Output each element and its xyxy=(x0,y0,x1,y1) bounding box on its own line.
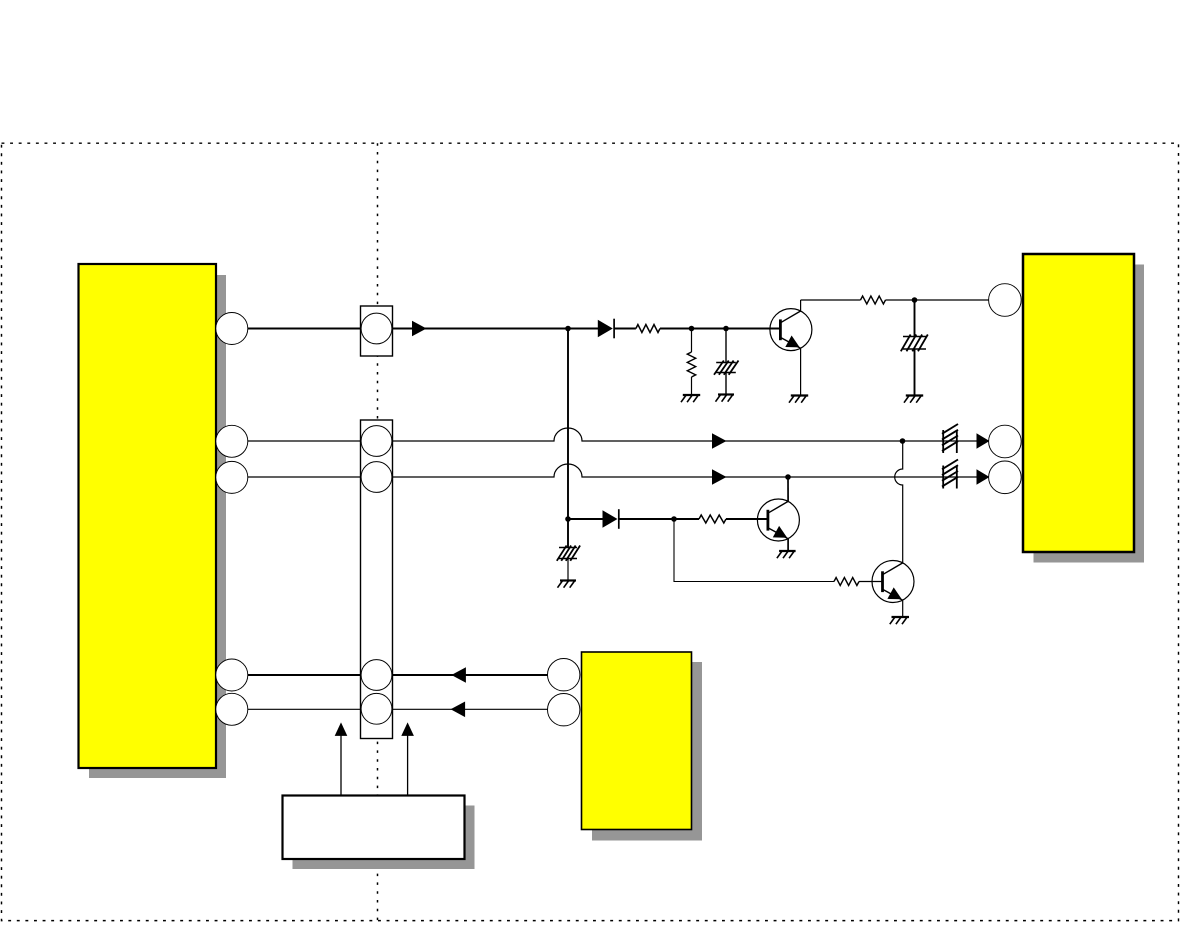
wire: N6 down to capacitor C3 xyxy=(914,300,916,337)
wire: Q1 collector up xyxy=(800,300,802,312)
wire: Q2 emitter down xyxy=(787,539,789,551)
wire W3: left pin to middle block pin xyxy=(232,674,564,676)
wire: Q3 emitter down xyxy=(902,600,904,617)
CN2 circle 4 xyxy=(361,693,392,724)
up arrow line (right) from bottom box xyxy=(407,736,409,796)
ferrite bead FB1 on W1 xyxy=(942,430,944,453)
node N6 junction dot xyxy=(912,297,918,303)
connector box CN2 (tall) xyxy=(361,420,393,739)
left yellow IC block xyxy=(79,264,217,768)
left block shadow xyxy=(89,275,226,778)
ground under C3 xyxy=(906,394,923,396)
capacitor C2 (hatched) xyxy=(559,547,577,549)
ground under Q2 emitter xyxy=(779,550,796,552)
right block pin 2 xyxy=(989,425,1022,458)
diode D2 xyxy=(603,510,618,528)
connector box CN1 (top) xyxy=(361,306,393,356)
left block pin 3 xyxy=(216,461,248,493)
bottom white box shadow xyxy=(293,806,475,870)
wire: N4 down to capacitor C2 xyxy=(567,519,569,548)
node N4 junction dot xyxy=(565,516,571,522)
node N7 junction dot on W1 xyxy=(900,438,906,444)
ground under C1 xyxy=(718,393,734,395)
left block pin 4 xyxy=(216,659,248,691)
wire: N5 down and right to resistor R5 xyxy=(674,519,834,582)
resistor R1 xyxy=(636,325,660,333)
transistor Q2 xyxy=(757,499,799,541)
up arrow line (left) from bottom box xyxy=(340,736,342,796)
wire: D2 to node N5 xyxy=(619,518,699,520)
wire: node N1 to diode D1 xyxy=(568,328,598,330)
up arrowhead (right) xyxy=(401,722,414,736)
ground under C2 xyxy=(560,579,576,581)
middle block pin 2 xyxy=(548,694,580,726)
right yellow IC block xyxy=(1023,254,1134,552)
ground under R4 xyxy=(683,394,700,396)
middle block pin 1 xyxy=(548,659,580,691)
wire: Q2 collector up to N8 xyxy=(787,477,789,501)
CN2 circle 2 xyxy=(361,462,392,493)
CN2 circle 1 xyxy=(361,426,392,457)
arrow on wire W1 xyxy=(712,433,727,449)
node N3 junction dot xyxy=(723,326,729,332)
CN2 circle 3 xyxy=(361,660,392,691)
center dividing dotted line xyxy=(377,143,379,920)
diode D1 xyxy=(598,320,613,338)
wire: C3 to ground xyxy=(914,349,916,396)
wire: N3 down to capacitor C1 xyxy=(725,329,727,363)
right block shadow xyxy=(1034,265,1145,563)
ground under Q3 emitter xyxy=(892,616,910,618)
wire: R5 to Q3 base xyxy=(859,581,883,583)
ground under Q1 emitter xyxy=(791,394,808,396)
bottom white box xyxy=(283,796,465,860)
node N8 junction dot on W2 xyxy=(785,474,791,480)
arrow on wire W4 (left) xyxy=(451,702,466,718)
wire W2: left pin through CN2 with hop over vertical xyxy=(232,464,989,477)
middle yellow IC block xyxy=(582,652,692,830)
wire: Q1 emitter down xyxy=(800,348,802,395)
wire: Q1 collector to resistor R3 xyxy=(801,299,861,301)
resistor R2 xyxy=(699,515,726,523)
wire: vertical N1 to N4 xyxy=(567,329,569,520)
CN1 circle xyxy=(361,313,392,344)
right block pin 3 xyxy=(989,461,1022,494)
arrow on wire W2 xyxy=(712,469,727,485)
wire W4: left pin to middle block pin xyxy=(232,708,564,710)
resistor R5 xyxy=(834,578,859,586)
left block pin 1 xyxy=(216,313,248,345)
wire: main signal pin to CN1 xyxy=(232,328,361,330)
arrow on wire W3 (left) xyxy=(451,667,466,683)
resistor R4 xyxy=(687,352,695,377)
wire: Q3 collector up with hop over W2 xyxy=(895,441,903,563)
arrow into right pin on W2 xyxy=(977,469,990,485)
node N5 junction dot xyxy=(671,516,677,522)
arrow on main signal wire xyxy=(412,321,427,337)
wire: CN1 to node N1 xyxy=(393,328,569,330)
wire: C1 to ground xyxy=(725,373,727,395)
node N2 junction dot xyxy=(689,326,695,332)
resistor R3 xyxy=(861,296,886,304)
wire: R1 to Q1 base xyxy=(660,328,780,330)
wire: D1 to resistor R1 xyxy=(614,328,636,330)
transistor Q1 xyxy=(770,309,812,351)
wire: N2 down to resistor R4 xyxy=(691,329,693,353)
wire: R2 to Q2 base xyxy=(726,518,768,520)
wire: N4 to diode D2 xyxy=(568,518,603,520)
arrow into right pin on W1 xyxy=(977,433,990,449)
transistor Q3 xyxy=(872,561,914,603)
capacitor C3 (hatched) xyxy=(903,336,926,338)
node N1 junction dot xyxy=(565,326,571,332)
left block pin 2 xyxy=(216,425,248,457)
right block pin 1 xyxy=(989,284,1022,317)
wire: R3 to node N6 xyxy=(886,299,989,301)
capacitor C1 (hatched) xyxy=(716,362,736,364)
middle block shadow xyxy=(592,662,702,841)
left block pin 5 xyxy=(216,693,248,725)
wire W1: left pin through CN2 with hop over vertical xyxy=(232,428,989,441)
wire: R4 to ground xyxy=(691,377,693,395)
wire: C2 to ground xyxy=(567,559,569,581)
ferrite bead FB2 on W2 xyxy=(942,466,944,489)
up arrowhead (left) xyxy=(335,722,348,736)
